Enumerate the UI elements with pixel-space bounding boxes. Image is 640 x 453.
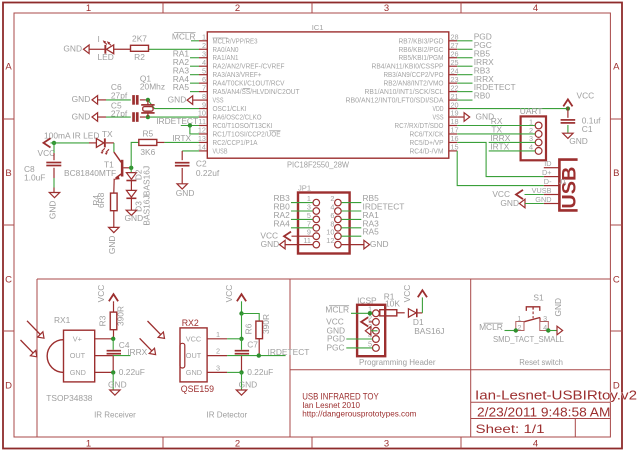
svg-text:I: I xyxy=(98,34,100,44)
svg-text:VCC: VCC xyxy=(577,90,595,100)
wire T1 emitter to R4 xyxy=(113,179,115,193)
svg-text:A: A xyxy=(5,62,12,73)
svg-text:2: 2 xyxy=(216,347,220,356)
node MCLR label at pin 1 xyxy=(172,31,199,41)
svg-text:0.22uf: 0.22uf xyxy=(196,168,220,178)
IR light arrows into RX1 xyxy=(21,321,45,357)
svg-text:RA4: RA4 xyxy=(274,218,291,228)
svg-text:15: 15 xyxy=(451,143,459,152)
svg-text:27pf: 27pf xyxy=(111,90,128,100)
svg-text:GND: GND xyxy=(535,195,551,204)
svg-text:B: B xyxy=(5,168,11,179)
svg-text:JP1: JP1 xyxy=(298,184,311,193)
section box drawing area xyxy=(37,279,610,437)
IC RX2 QSE159 body xyxy=(180,318,227,394)
frame row letters right xyxy=(613,62,620,392)
resistor R2 2K7 xyxy=(131,34,149,63)
svg-text:GND: GND xyxy=(239,379,258,389)
LED TX (IR emitter) xyxy=(89,129,114,155)
svg-text:100mA IR LED: 100mA IR LED xyxy=(44,130,99,140)
svg-text:IR Receiver: IR Receiver xyxy=(94,410,136,420)
svg-text:D-: D- xyxy=(544,177,552,186)
svg-text:GND: GND xyxy=(569,136,588,146)
svg-text:3: 3 xyxy=(543,314,547,323)
connector JP1 2x6 header xyxy=(298,184,350,254)
ground GND inside ICSP pin 3 xyxy=(326,325,377,335)
svg-text:VUSB: VUSB xyxy=(532,186,552,195)
svg-text:IRTX: IRTX xyxy=(172,133,191,143)
transistor T1 BC81840MTF xyxy=(64,152,131,180)
svg-text:C7: C7 xyxy=(247,339,258,349)
node labels JP1 right side xyxy=(341,193,404,237)
wire pin 16 to USB D+ xyxy=(457,142,544,176)
ground GND below RX1 xyxy=(108,379,127,395)
svg-text:GND: GND xyxy=(176,188,195,198)
IC1 right pins 28-15 xyxy=(346,33,459,156)
svg-text:GND: GND xyxy=(125,213,144,223)
supply VCC above R3 xyxy=(96,285,118,304)
ground GND below C2 xyxy=(176,184,195,198)
ground GND at pin 19 xyxy=(457,111,494,121)
svg-text:VCC: VCC xyxy=(402,285,412,303)
resistor R1 10K xyxy=(380,291,405,316)
svg-text:C1: C1 xyxy=(582,124,593,134)
frame column numbers bottom xyxy=(86,439,538,450)
supply VCC at 100mA IR LED xyxy=(38,130,100,158)
connector USB pin stubs + labels xyxy=(532,159,560,204)
svg-text:Sheet: 1/1: Sheet: 1/1 xyxy=(476,422,545,436)
svg-text:BC81840MTF: BC81840MTF xyxy=(64,168,116,178)
svg-text:C2: C2 xyxy=(196,159,207,169)
svg-text:2/23/2011 9:48:58 AM: 2/23/2011 9:48:58 AM xyxy=(477,405,610,420)
svg-text:A: A xyxy=(613,62,620,73)
svg-text:USB: USB xyxy=(559,167,581,209)
frame row letters left xyxy=(5,62,12,392)
node IRDETECT wire pins 11+12 xyxy=(156,116,199,134)
svg-text:RC4/D-/VM: RC4/D-/VM xyxy=(410,146,444,155)
svg-text:QSE159: QSE159 xyxy=(181,384,214,394)
connector ICSP pin circles + numbers xyxy=(368,305,379,352)
svg-text:BAS16J: BAS16J xyxy=(142,166,152,196)
connector UART header xyxy=(520,106,546,160)
svg-text:3: 3 xyxy=(384,439,389,450)
node GND junction RX1 xyxy=(111,370,115,390)
node labels JP1 left side xyxy=(274,193,313,228)
node GND junction at S1 xyxy=(546,328,557,332)
ground GND at pin 8 xyxy=(168,94,199,104)
svg-text:4: 4 xyxy=(533,3,538,14)
ground GND below D3 xyxy=(125,210,144,223)
diode D1 BAS16J xyxy=(408,309,444,336)
svg-text:Ian-Lesnet-USBIRtoy.v2: Ian-Lesnet-USBIRtoy.v2 xyxy=(475,387,637,402)
wire VCC node to RX2 pin1 xyxy=(227,314,244,350)
connector UART pin circles + numbers xyxy=(529,117,542,154)
node IRTX wire to pin 13 xyxy=(164,133,199,143)
svg-text:GND: GND xyxy=(72,111,91,121)
svg-text:SMD_TACT_SMALL: SMD_TACT_SMALL xyxy=(493,334,564,344)
svg-text:RB0/AN12/INT0/LFT0/SDI/SDA: RB0/AN12/INT0/LFT0/SDI/SDA xyxy=(346,96,444,105)
title block text xyxy=(475,387,637,436)
svg-text:4: 4 xyxy=(533,439,538,450)
node labels RA1-RA5 xyxy=(173,48,199,92)
svg-text:1: 1 xyxy=(517,314,521,323)
ground GND at S1 xyxy=(553,298,563,335)
svg-text:390R: 390R xyxy=(116,306,126,326)
svg-text:5: 5 xyxy=(368,339,372,348)
svg-text:J1: J1 xyxy=(559,177,567,186)
crystal Q1 20Mhz xyxy=(140,73,165,117)
ground GND at C6 xyxy=(72,94,106,104)
svg-text:OUT: OUT xyxy=(70,351,86,360)
svg-text:IR Detector: IR Detector xyxy=(207,410,248,420)
svg-text:PIC18F2550_28W: PIC18F2550_28W xyxy=(287,159,349,169)
svg-text:IRDETECT: IRDETECT xyxy=(268,347,310,357)
svg-text:GND: GND xyxy=(261,239,280,249)
svg-text:27pf: 27pf xyxy=(111,109,128,119)
svg-text:GND: GND xyxy=(500,198,519,208)
diode D3 BAS16J xyxy=(126,190,151,225)
connector J1 USB xyxy=(559,160,581,211)
svg-text:2: 2 xyxy=(235,3,240,14)
svg-text:PGC: PGC xyxy=(326,343,344,353)
svg-text:UART: UART xyxy=(520,106,543,116)
svg-text:TX: TX xyxy=(102,129,113,139)
supply VCC at USB VUSB xyxy=(492,189,543,199)
supply VCC inside ICSP pin 2 xyxy=(326,317,372,327)
ground GND at JP1 pin 11 xyxy=(261,239,313,249)
svg-text:3: 3 xyxy=(216,363,220,372)
node V+ junction RX1 xyxy=(111,337,115,350)
title block rows xyxy=(471,402,611,437)
svg-text:GND: GND xyxy=(108,379,127,389)
svg-text:VCC: VCC xyxy=(186,334,201,343)
svg-text:11: 11 xyxy=(303,236,311,245)
svg-text:VCC: VCC xyxy=(38,148,56,158)
svg-text:D: D xyxy=(5,381,12,392)
svg-text:GND: GND xyxy=(72,94,91,104)
node B junction + wire to pin 10 xyxy=(146,115,199,119)
ground GND below C8 xyxy=(48,193,60,220)
resistor R6 390R xyxy=(244,314,272,356)
svg-text:2: 2 xyxy=(235,439,240,450)
svg-text:GND: GND xyxy=(48,201,58,220)
svg-text:B: B xyxy=(613,168,619,179)
svg-text:C: C xyxy=(613,275,620,286)
node VCC junction to R6 xyxy=(239,311,259,321)
svg-text:R2: R2 xyxy=(134,52,145,62)
LED LED1 xyxy=(98,34,131,62)
node GND junction RX2 xyxy=(227,370,244,390)
ground GND below R4 xyxy=(107,227,119,254)
svg-text:1: 1 xyxy=(216,330,220,339)
svg-text:V+: V+ xyxy=(73,334,82,343)
wire pin 15 to USB D- xyxy=(457,151,544,186)
node IRRX wire from RX1 OUT xyxy=(113,347,148,357)
supply VCC above C1 xyxy=(563,90,594,108)
capacitor C4 0.22uF xyxy=(107,340,145,377)
svg-text:IRRX: IRRX xyxy=(127,347,147,357)
svg-text:GND: GND xyxy=(553,298,563,317)
wire LED row to pin 2 xyxy=(149,48,200,50)
frame column numbers top xyxy=(86,3,538,14)
svg-text:GND: GND xyxy=(370,239,389,249)
connector ICSP programming header xyxy=(357,295,385,356)
svg-text:LED: LED xyxy=(98,52,114,62)
diode D2 BAS16J xyxy=(126,166,151,196)
svg-text:RX1: RX1 xyxy=(54,315,71,325)
svg-text:6R8: 6R8 xyxy=(96,192,106,208)
IC RX1 TSOP34838 body xyxy=(46,315,113,403)
svg-text:RA5: RA5 xyxy=(173,82,190,92)
svg-text:Programming Header: Programming Header xyxy=(359,357,436,367)
svg-text:RX2: RX2 xyxy=(182,318,199,328)
svg-text:VCC: VCC xyxy=(96,285,106,303)
svg-text:ID: ID xyxy=(544,159,551,168)
IR light arrows into RX2 xyxy=(140,321,165,355)
wire TX LED to T1 collector xyxy=(113,143,115,152)
svg-text:S1: S1 xyxy=(533,292,544,302)
svg-text:Reset switch: Reset switch xyxy=(519,357,563,367)
svg-text:RA5: RA5 xyxy=(363,227,380,237)
supply VCC at JP1 pin 9 xyxy=(260,231,312,241)
IC1 left pins 1-14 xyxy=(198,33,300,156)
svg-text:390R: 390R xyxy=(261,314,271,334)
resistor R4 6R8 xyxy=(91,192,117,227)
capacitor C7 0.22uF xyxy=(235,339,274,376)
op-amp IC1 PIC18F2550_28W body xyxy=(207,23,448,169)
switch S1 SMD_TACT_SMALL xyxy=(493,292,564,344)
svg-text:RA5/AN4/SS/HLVDIN/C2OUT: RA5/AN4/SS/HLVDIN/C2OUT xyxy=(213,87,300,96)
node VCC junction + wire to TX LED xyxy=(51,141,90,145)
svg-text:1.0uF: 1.0uF xyxy=(24,173,45,183)
svg-text:10K: 10K xyxy=(385,298,400,308)
svg-text:D+: D+ xyxy=(542,168,552,177)
ground GND at JP1 pin 12 xyxy=(341,239,388,249)
svg-text:R3: R3 xyxy=(98,315,108,326)
connector JP1 pin circles + numbers xyxy=(303,194,341,248)
resistor R5 3K6 xyxy=(131,128,164,157)
wire pin 17 TX to UART 2 xyxy=(457,125,535,135)
svg-text:1: 1 xyxy=(86,439,91,450)
svg-text:3K6: 3K6 xyxy=(140,147,155,157)
svg-text:12: 12 xyxy=(326,236,334,245)
capacitor C6 27pf xyxy=(106,82,146,105)
ground GND at C5 xyxy=(72,111,106,121)
ground GND at USB GND xyxy=(500,198,543,208)
node IRRX stub to UART 3 xyxy=(489,133,536,143)
svg-text:TSOP34838: TSOP34838 xyxy=(46,393,92,403)
node T1 base junction xyxy=(129,143,133,170)
ground GND below RX2 xyxy=(236,379,257,395)
svg-text:GND: GND xyxy=(186,368,202,377)
wire pin 18 RX to UART 1 xyxy=(457,116,535,126)
svg-text:GND: GND xyxy=(63,44,82,54)
svg-text:GND: GND xyxy=(107,236,117,255)
svg-text:3: 3 xyxy=(384,3,389,14)
node A junction + wire to pin 9 xyxy=(146,98,199,109)
label USB INFRARED TOY xyxy=(302,391,416,418)
svg-text:OUT: OUT xyxy=(186,351,202,360)
svg-text:14: 14 xyxy=(198,143,206,152)
svg-text:VCC: VCC xyxy=(224,285,234,303)
svg-text:R5: R5 xyxy=(142,128,153,138)
capacitor C2 0.22uf on pin 14 xyxy=(175,151,220,184)
resistor R3 390R xyxy=(98,304,126,339)
svg-text:20Mhz: 20Mhz xyxy=(140,82,165,92)
svg-text:0.22uF: 0.22uF xyxy=(119,367,145,377)
node IRDETECT wire from RX2 OUT xyxy=(227,347,309,358)
supply VCC above RX2 xyxy=(224,285,246,314)
svg-text:RB0: RB0 xyxy=(474,91,491,101)
svg-text:0.22uF: 0.22uF xyxy=(247,367,273,377)
ground GND at LED1 xyxy=(63,44,104,54)
ground GND below C1 xyxy=(563,133,588,146)
svg-text:2K7: 2K7 xyxy=(132,34,147,44)
wire pin 20 VDD to VCC node xyxy=(457,106,570,110)
capacitor C8 1.0uF xyxy=(24,143,61,193)
node IRTX stub to UART 4 xyxy=(489,142,536,152)
svg-text:http://dangerousprototypes.com: http://dangerousprototypes.com xyxy=(302,409,416,419)
node PGC wire to ICSP 5 xyxy=(326,343,372,353)
node labels PGD/PGC/RB5/IRRX/RB3/IRRX/IRDETECT/RB0 xyxy=(457,31,515,100)
svg-text:GND: GND xyxy=(168,94,187,104)
svg-text:C: C xyxy=(5,275,12,286)
node MCLR wire to S1 xyxy=(479,322,518,333)
capacitor C1 0.1uf xyxy=(561,109,602,134)
svg-text:BAS16J: BAS16J xyxy=(414,326,444,336)
node PGD wire to ICSP 4 xyxy=(327,334,373,344)
svg-text:R6: R6 xyxy=(244,323,254,334)
supply VCC after D1 xyxy=(402,285,427,313)
svg-text:IC1: IC1 xyxy=(312,23,324,32)
capacitor C5 27pf xyxy=(106,100,146,121)
svg-text:1: 1 xyxy=(86,3,91,14)
svg-text:VUSB: VUSB xyxy=(213,146,228,155)
svg-text:GND: GND xyxy=(70,368,86,377)
node MCLR wire to ICSP 1 xyxy=(325,305,372,316)
svg-text:IRTX: IRTX xyxy=(490,142,509,152)
